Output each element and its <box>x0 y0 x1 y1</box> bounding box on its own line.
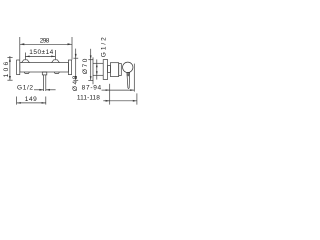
outlet pipe left line <box>43 75 45 91</box>
body right end cap <box>68 60 71 75</box>
svg-text:298: 298 <box>40 37 50 44</box>
svg-text:87-94: 87-94 <box>82 85 102 92</box>
dimension 106 arrow down <box>9 76 11 80</box>
connection nipple top <box>93 62 103 64</box>
dimension 150±14 arrow right <box>51 56 55 58</box>
dimension 87-94 leader and line <box>102 89 110 91</box>
union nut side view <box>108 66 111 73</box>
end ring side view <box>119 64 122 76</box>
left connection dome <box>22 60 30 63</box>
dimension Ø48 bottom tick <box>73 79 78 81</box>
svg-text:Ø70: Ø70 <box>82 58 89 74</box>
svg-text:106: 106 <box>3 61 10 77</box>
handle lever grip <box>127 73 130 89</box>
svg-text:G1/2: G1/2 <box>17 85 33 92</box>
dimension 150±14 arrow left <box>25 56 29 58</box>
dimension 149 line <box>17 102 46 104</box>
dimension 298 arrow left <box>20 43 25 45</box>
dimension Ø48 top tick <box>73 57 78 59</box>
dimension 298 extension line left <box>19 37 21 60</box>
dimension Ø70 top tick <box>88 59 93 61</box>
dimension 149 arrow right <box>42 102 46 104</box>
G1/2 leader arrow right-pointing at pipe <box>34 89 43 91</box>
body left end cap <box>17 60 20 75</box>
G1/2 side arrow up <box>96 64 98 68</box>
G1/2 leader arrow left-pointing at pipe <box>46 89 56 91</box>
wall line side view <box>92 57 94 84</box>
dimension Ø48 arrow top <box>75 54 77 58</box>
dimension 150±14 extension right <box>54 50 56 59</box>
dimension 106 bottom tick <box>7 79 12 81</box>
dimension 106 arrow up <box>9 58 11 62</box>
connection nipple bottom <box>93 74 103 76</box>
G1/2 side dimension line <box>96 59 98 79</box>
svg-text:111-118: 111-118 <box>77 95 100 102</box>
dimension common extension line x=109.7 <box>109 84 111 105</box>
dimension 150±14 extension left <box>24 53 26 60</box>
escutcheon side view <box>103 60 107 80</box>
dimension 111-118 extension right <box>136 93 138 104</box>
dimension 149 extension left <box>16 97 18 105</box>
right bottom notch <box>54 72 59 73</box>
G1/2 side arrow down <box>96 71 98 75</box>
dimension Ø70 arrow bottom <box>90 76 92 80</box>
dimension 149 arrow left <box>17 102 21 104</box>
mixer body front view <box>20 63 69 72</box>
svg-text:149: 149 <box>25 96 37 103</box>
dimension Ø48 line <box>75 49 77 81</box>
dimension Ø70 bottom tick <box>88 79 93 81</box>
right connection dome <box>52 60 60 63</box>
dimension 150±14 line <box>25 55 55 57</box>
body cylinder side view <box>110 63 118 77</box>
dimension Ø70 arrow top <box>90 55 92 59</box>
dimension Ø48 arrow bottom <box>75 76 77 80</box>
dimension 111-118 leader and line <box>103 100 109 102</box>
dimension 106 line <box>9 56 11 80</box>
svg-text:150±14: 150±14 <box>29 49 53 56</box>
center outlet boss <box>42 72 47 75</box>
handle neck shading <box>127 73 130 76</box>
svg-text:Ø48: Ø48 <box>72 75 79 91</box>
dimension 106 top tick <box>7 57 12 59</box>
dimension 298 arrow right <box>68 43 73 45</box>
outlet pipe right line <box>45 75 47 91</box>
left bottom notch <box>24 72 29 73</box>
svg-text:G1/2: G1/2 <box>101 37 108 57</box>
handle dome <box>123 62 133 72</box>
dimension 149 extension right <box>45 97 47 105</box>
dimension 298 extension line right <box>71 37 73 60</box>
dimension 87-94 extension right <box>133 64 135 92</box>
dimension Ø70 line <box>90 49 92 81</box>
dimension 298 line <box>20 43 72 45</box>
